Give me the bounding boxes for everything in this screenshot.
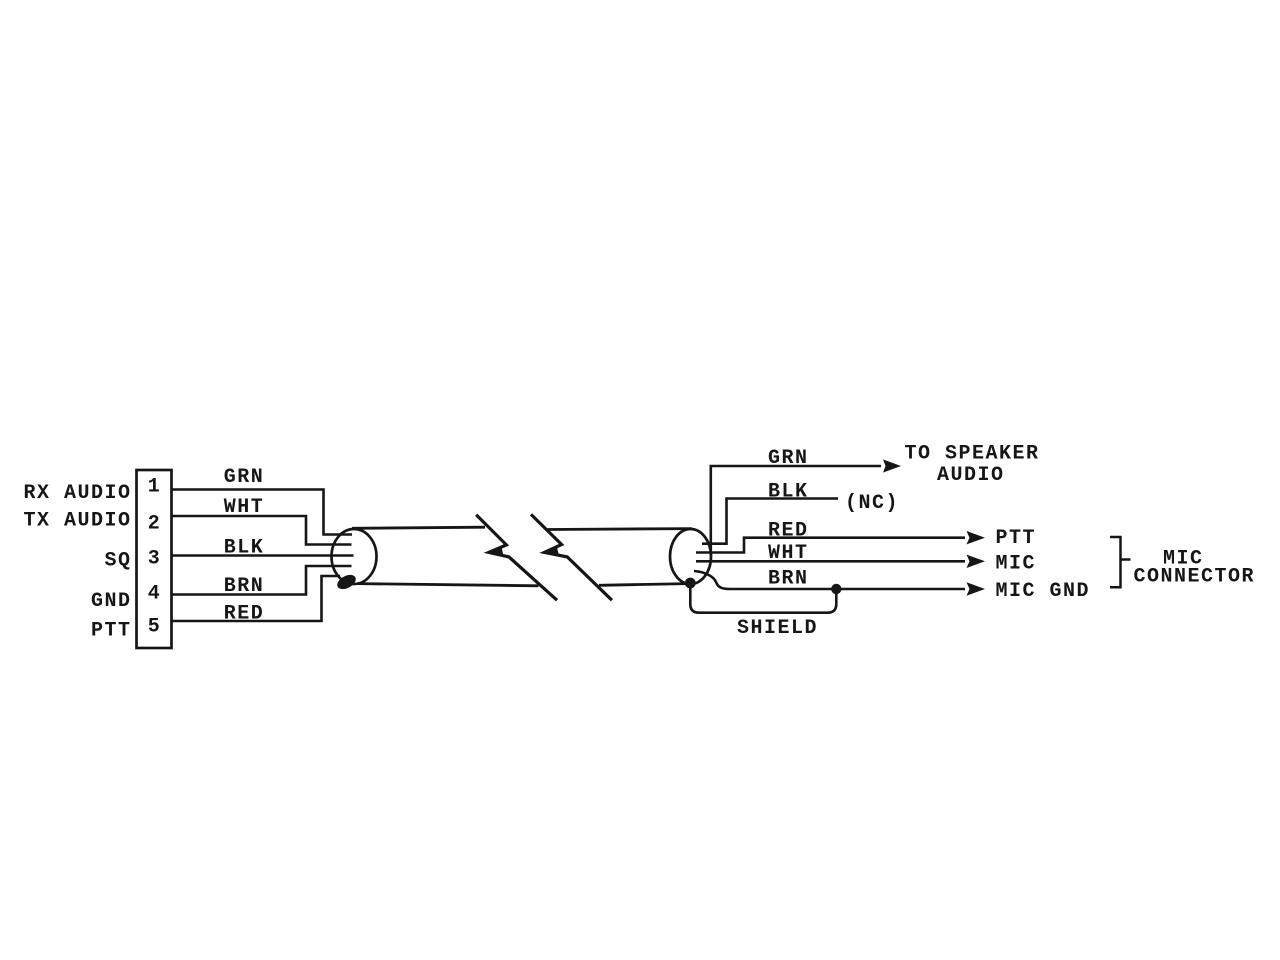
svg-text:PTT: PTT: [91, 620, 132, 643]
wire BLK pin3: [172, 554, 354, 557]
cable entry ellipse left: [332, 529, 377, 584]
svg-text:SHIELD: SHIELD: [737, 617, 818, 640]
svg-text:TX AUDIO: TX AUDIO: [23, 510, 131, 533]
wire BLK right: [702, 499, 838, 544]
svg-text:RED: RED: [224, 603, 265, 626]
svg-text:WHT: WHT: [224, 496, 265, 519]
cable break mark 2: [531, 514, 612, 600]
svg-text:3: 3: [148, 548, 162, 571]
svg-text:BLK: BLK: [768, 481, 809, 504]
arrowhead WHT / MIC: [967, 555, 986, 568]
svg-text:WHT: WHT: [768, 542, 809, 565]
svg-text:BRN: BRN: [224, 575, 265, 598]
svg-text:BRN: BRN: [768, 568, 809, 591]
svg-text:MIC: MIC: [996, 553, 1037, 576]
arrowhead RED / PTT: [967, 531, 986, 544]
svg-text:BLK: BLK: [224, 537, 265, 560]
svg-text:4: 4: [148, 583, 162, 606]
cable break mark 1: [476, 515, 557, 601]
svg-text:PTT: PTT: [996, 527, 1037, 550]
wire BRN right: [694, 571, 965, 589]
cable bottom line right segment: [599, 584, 688, 586]
wire RED pin5: [172, 576, 341, 621]
cable top line left segment: [352, 527, 485, 528]
svg-text:(NC): (NC): [845, 492, 899, 515]
wire BRN pin4: [172, 566, 352, 595]
cable top line right segment: [548, 527, 693, 531]
svg-text:1: 1: [148, 476, 162, 499]
svg-text:MIC GND: MIC GND: [996, 580, 1091, 603]
wire WHT right: [696, 560, 965, 563]
svg-text:2: 2: [148, 513, 162, 536]
svg-text:CONNECTOR: CONNECTOR: [1134, 566, 1256, 589]
wire RED right: [696, 538, 965, 553]
svg-text:GRN: GRN: [768, 447, 809, 470]
bracket MIC CONNECTOR: [1110, 537, 1131, 587]
junction dot shield/BRN: [831, 584, 841, 594]
arrowhead GRN: [883, 459, 901, 472]
shield dot right ellipse: [685, 578, 696, 589]
shield wire: [690, 583, 836, 613]
cable bottom line left segment: [357, 584, 539, 586]
svg-text:5: 5: [148, 616, 162, 639]
svg-text:GRN: GRN: [224, 466, 265, 489]
wire GRN right: [711, 466, 881, 556]
svg-text:RX AUDIO: RX AUDIO: [23, 482, 131, 505]
shield blob left: [335, 572, 358, 592]
wire WHT pin2: [172, 516, 352, 545]
svg-text:TO SPEAKER: TO SPEAKER: [905, 443, 1040, 466]
svg-text:AUDIO: AUDIO: [937, 464, 1005, 487]
svg-text:GND: GND: [91, 590, 132, 613]
svg-text:SQ: SQ: [104, 550, 131, 573]
connector J1 body: [137, 470, 172, 648]
svg-text:RED: RED: [768, 520, 809, 543]
arrowhead BRN / MIC GND: [967, 582, 986, 595]
wire GRN pin1: [172, 490, 353, 535]
cable end ellipse right: [670, 529, 711, 584]
